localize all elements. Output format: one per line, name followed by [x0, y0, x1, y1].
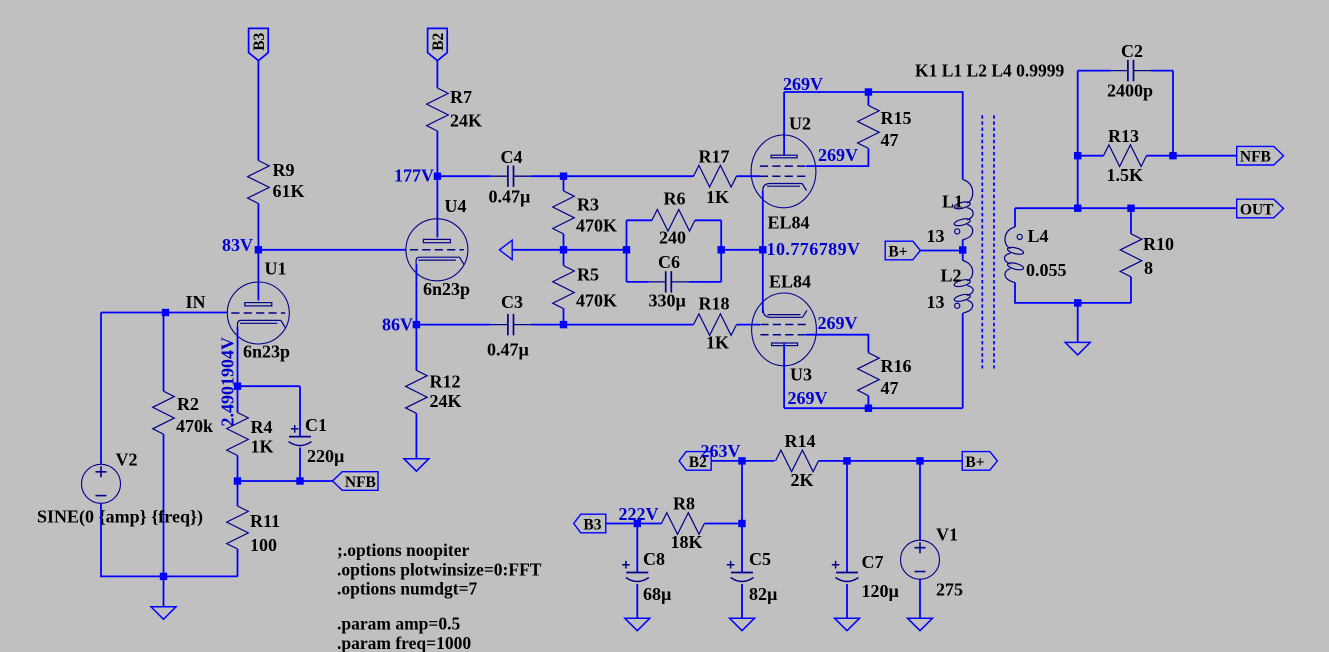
- flag OUT: [1237, 199, 1284, 218]
- triode U1 6n23p: [227, 259, 290, 362]
- wire ground stub left: [163, 576, 165, 606]
- svg-text:R3: R3: [577, 195, 599, 215]
- wire secondary left: [1014, 208, 1016, 227]
- svg-text:R11: R11: [250, 511, 280, 531]
- svg-text:470K: 470K: [576, 216, 617, 236]
- ground (R12): [404, 459, 429, 472]
- svg-text:68µ: 68µ: [643, 584, 672, 604]
- junction top rail / R15: [865, 88, 872, 95]
- wire C7 to ground: [846, 584, 848, 618]
- svg-text:R2: R2: [177, 394, 199, 414]
- wire U4 plate lead: [436, 176, 438, 237]
- junction 86V node: [413, 321, 420, 328]
- wire R17 to U2 grid: [737, 175, 761, 177]
- svg-text:NFB: NFB: [345, 474, 376, 491]
- svg-text:IN: IN: [186, 292, 206, 312]
- wire U1 plate lead: [257, 250, 259, 301]
- wire C7 node to V1 node: [847, 460, 920, 462]
- resistor R3: [553, 191, 617, 236]
- flag NFB (output): [1237, 146, 1284, 165]
- wire V1 top lead: [919, 461, 921, 540]
- wire B2 to R7: [436, 61, 438, 88]
- resistor R8: [661, 494, 704, 553]
- wire top row to R17: [564, 175, 694, 177]
- capacitor C8 (polarized): [622, 549, 672, 604]
- wire R3 to mid node: [563, 234, 565, 250]
- wire R3 top stub: [563, 176, 565, 191]
- capacitor C2: [1107, 41, 1153, 101]
- capacitor C1 (polarized): [289, 415, 346, 466]
- wire R16 to U3 screen: [806, 335, 868, 353]
- svg-text:R10: R10: [1143, 234, 1174, 254]
- svg-text:C1: C1: [305, 415, 327, 435]
- svg-text:269V: 269V: [788, 388, 828, 408]
- svg-text:C8: C8: [643, 549, 665, 569]
- wire to R4: [237, 386, 239, 412]
- phase dot L4: [1017, 234, 1022, 239]
- svg-text:V1: V1: [936, 525, 958, 545]
- junction R13 left: [1074, 152, 1081, 159]
- wire C6 bottom left: [627, 281, 649, 283]
- junction C4/R3/R17: [560, 173, 567, 180]
- svg-text:0.47µ: 0.47µ: [487, 340, 530, 360]
- wire L2 to bottom rail: [962, 313, 964, 408]
- wire R10 top stub: [1130, 208, 1132, 234]
- svg-text:.param amp=0.5: .param amp=0.5: [337, 614, 460, 634]
- ground (C7): [835, 618, 860, 631]
- phase dot L1: [955, 229, 960, 234]
- capacitor C7 (polarized): [832, 552, 900, 601]
- phase dot L2: [955, 303, 960, 308]
- wire R13 left stub: [1078, 155, 1104, 157]
- junction R3/R5 mid node: [560, 246, 567, 253]
- voltage source V2: [37, 450, 203, 528]
- svg-text:82µ: 82µ: [749, 584, 778, 604]
- ground (V1): [908, 618, 933, 631]
- svg-text:R14: R14: [785, 431, 816, 451]
- svg-text:1K: 1K: [706, 333, 729, 353]
- junction OUT row R10: [1127, 205, 1134, 212]
- svg-text:1K: 1K: [706, 187, 729, 207]
- junction 83V node: [255, 246, 262, 253]
- wire 86V row to C3: [416, 324, 490, 326]
- wire R16 bottom stub: [867, 396, 869, 409]
- wire C5 column: [741, 461, 743, 573]
- svg-text:C5: C5: [749, 549, 771, 569]
- wire L1 to center tap: [962, 240, 964, 250]
- svg-text:6n23p: 6n23p: [243, 342, 290, 362]
- wire U4 cathode down to 86V: [415, 264, 417, 325]
- svg-text:C4: C4: [501, 147, 523, 167]
- svg-text:R7: R7: [450, 87, 472, 107]
- wire V2 top loop: [100, 313, 102, 465]
- svg-text:1.5K: 1.5K: [1107, 165, 1144, 185]
- capacitor C6: [649, 252, 689, 311]
- wire bottom row to R18: [564, 324, 694, 326]
- wire C1 top lead: [299, 386, 301, 436]
- svg-text:6n23p: 6n23p: [423, 279, 470, 299]
- junction R5/C3 row: [560, 321, 567, 328]
- ground (secondary): [1065, 342, 1090, 355]
- svg-text:R18: R18: [699, 294, 730, 314]
- svg-text:24K: 24K: [430, 391, 462, 411]
- wire C8 to ground: [636, 584, 638, 618]
- inductor L4: [1005, 227, 1025, 283]
- wire V2 bottom / ground rail: [101, 503, 238, 576]
- wire R4 to NFB row: [237, 456, 239, 482]
- wire B+ flag to tap: [920, 250, 962, 252]
- svg-text:U3: U3: [790, 365, 812, 385]
- wire R6 top left: [627, 219, 652, 221]
- capacitor C5 (polarized): [727, 549, 778, 604]
- svg-text:.param freq=1000: .param freq=1000: [337, 633, 471, 652]
- wire mid node to R6C6 block: [564, 249, 627, 251]
- wire C3 to R5 node: [531, 324, 564, 326]
- wire U3 plate to bottom rail: [784, 407, 963, 409]
- svg-text:L2: L2: [941, 266, 962, 286]
- resistor R14: [776, 431, 819, 490]
- junction U1 cathode / R4 / C1: [234, 383, 241, 390]
- svg-text:R9: R9: [273, 160, 295, 180]
- wire secondary top rail: [1015, 207, 1237, 209]
- junction IN node: [162, 309, 169, 316]
- wire secondary left bottom: [1015, 283, 1131, 303]
- wire B3 flag to 222V: [606, 523, 638, 525]
- resistor R16: [858, 353, 912, 398]
- wire U3 cathode to mid node: [762, 250, 764, 313]
- svg-text:269V: 269V: [783, 74, 823, 94]
- svg-text:1K: 1K: [251, 437, 274, 457]
- svg-text:NFB: NFB: [1240, 149, 1271, 166]
- capacitor C4: [489, 147, 532, 207]
- inductor L2: [954, 261, 974, 314]
- svg-text:2K: 2K: [791, 470, 814, 490]
- svg-text:R6: R6: [664, 189, 686, 209]
- flag B3 (top supply): [249, 28, 269, 60]
- wire B2 flag to 263V: [711, 460, 742, 462]
- svg-text:L1: L1: [942, 192, 963, 212]
- voltage source V1: [901, 525, 964, 600]
- wire R5 top stub: [563, 250, 565, 266]
- svg-text:330µ: 330µ: [649, 291, 687, 311]
- svg-text:B+: B+: [965, 454, 984, 471]
- svg-text:61K: 61K: [273, 181, 305, 201]
- wire R6C6 left rail: [626, 220, 628, 282]
- svg-text:U2: U2: [789, 114, 811, 134]
- svg-text:24K: 24K: [450, 111, 482, 131]
- svg-text:U1: U1: [265, 259, 287, 279]
- svg-text:0.055: 0.055: [1026, 260, 1067, 280]
- junction R4/R11/NFB row: [234, 477, 241, 484]
- svg-text:.options plotwinsize=0:FFT: .options plotwinsize=0:FFT: [337, 559, 542, 579]
- svg-text:EL84: EL84: [768, 213, 810, 233]
- wire C7 column: [846, 461, 848, 573]
- wire IN row to U1 grid: [101, 312, 227, 314]
- svg-text:R16: R16: [881, 356, 912, 376]
- svg-text:B3: B3: [251, 32, 268, 50]
- resistor R5: [553, 265, 617, 311]
- wire R2 to bottom rail: [163, 434, 165, 576]
- wire NFB row to flag: [1173, 155, 1237, 157]
- inductor L1: [954, 180, 974, 240]
- resistor R2: [153, 391, 213, 436]
- svg-text:100: 100: [250, 535, 277, 555]
- junction 177V node: [434, 173, 441, 180]
- svg-text:220µ: 220µ: [307, 446, 345, 466]
- wire secondary ground stub: [1077, 303, 1079, 343]
- svg-text:C6: C6: [658, 252, 680, 272]
- wire R6 top right: [695, 219, 721, 221]
- wire U2 cathode to mid node: [762, 191, 764, 250]
- wire 263V to R14: [742, 460, 775, 462]
- pentode U2 EL84: [751, 114, 816, 233]
- svg-text:OUT: OUT: [1240, 201, 1274, 218]
- flag B+ (PSU): [962, 452, 997, 471]
- wire R15 to U2 screen: [806, 148, 868, 166]
- svg-text:C3: C3: [501, 292, 523, 312]
- wire C1 bottom lead: [299, 448, 301, 482]
- junction bottom rail / R16: [865, 405, 872, 412]
- wire NFB loop vertical: [1077, 71, 1079, 209]
- svg-text:2400p: 2400p: [1107, 81, 1153, 101]
- svg-text:470K: 470K: [576, 291, 617, 311]
- wire R6C6 right rail: [720, 220, 722, 282]
- wire R12 to ground: [415, 413, 417, 458]
- resistor R12: [406, 370, 462, 413]
- resistor R15: [858, 105, 912, 150]
- junction ground rail: [160, 573, 167, 580]
- wire R15 top stub: [867, 92, 869, 105]
- capacitor C3: [487, 292, 531, 360]
- svg-text:2.4901904V: 2.4901904V: [218, 337, 238, 427]
- svg-text:C2: C2: [1121, 41, 1143, 61]
- svg-text:SINE(0 {amp} {freq}): SINE(0 {amp} {freq}): [37, 507, 203, 528]
- ground (C8): [625, 618, 650, 631]
- svg-text:R15: R15: [881, 108, 912, 128]
- wire R14 to C7 node: [819, 460, 848, 462]
- svg-text:L4: L4: [1028, 226, 1049, 246]
- junction cathode node: [759, 246, 766, 253]
- wire 222V to R8: [637, 523, 661, 525]
- ground (input stage): [151, 607, 176, 620]
- resistor R18: [694, 294, 737, 353]
- resistor R17: [694, 147, 737, 208]
- pentode U3 EL84 (flipped): [752, 272, 817, 385]
- flag B2 (PSU): [679, 452, 711, 471]
- wire U3 plate lead: [783, 344, 785, 409]
- svg-text:B2: B2: [430, 32, 447, 50]
- flag B2 (top supply): [428, 28, 448, 60]
- svg-text:275: 275: [936, 580, 963, 600]
- svg-text:R12: R12: [430, 372, 461, 392]
- resistor R13: [1104, 126, 1147, 185]
- svg-text:EL84: EL84: [769, 272, 811, 292]
- wire C6 bottom right: [689, 281, 722, 283]
- svg-text:R13: R13: [1108, 126, 1139, 146]
- wire U2 plate to top rail: [784, 92, 963, 180]
- wire C5 to ground: [741, 584, 743, 618]
- resistor R9: [248, 160, 305, 204]
- wire R7 to 177V node: [436, 131, 438, 176]
- wire R9 to 83V node: [257, 204, 259, 250]
- svg-text:U4: U4: [445, 196, 467, 216]
- svg-text:.options numdgt=7: .options numdgt=7: [337, 579, 478, 599]
- svg-text:47: 47: [881, 378, 899, 398]
- svg-text:240: 240: [659, 228, 686, 248]
- wire U1 cathode down: [237, 327, 239, 386]
- junction 263V: [738, 457, 745, 464]
- junction C7 node: [843, 457, 850, 464]
- svg-text:269V: 269V: [818, 313, 858, 333]
- wire C4 to R3 node: [531, 175, 564, 177]
- wire NFB row: [238, 480, 333, 482]
- junction block right / mid row: [718, 246, 725, 253]
- wire block to cathode node: [721, 249, 763, 251]
- wire R13 right stub: [1147, 155, 1174, 157]
- svg-text:8: 8: [1144, 258, 1153, 278]
- transformer core dashed lines: [982, 115, 994, 368]
- wire V1 to ground: [919, 579, 921, 618]
- resistor R7: [427, 87, 482, 131]
- wire V1 node to B+ flag: [920, 460, 962, 462]
- wire 83V node to U4 grid: [258, 249, 405, 251]
- junction OUT row left: [1074, 205, 1081, 212]
- wire tap to L2: [962, 250, 964, 261]
- wire B3 to R9: [257, 61, 259, 161]
- svg-text:R17: R17: [699, 147, 730, 167]
- junction block left / mid row: [623, 246, 630, 253]
- junction C1 bottom: [296, 477, 303, 484]
- junction 222V: [634, 520, 641, 527]
- wire C2 top left: [1078, 70, 1111, 72]
- svg-text:470k: 470k: [176, 416, 213, 436]
- wire R10 bottom stub: [1130, 277, 1132, 303]
- wire cathode node to C1: [238, 385, 301, 387]
- wire IN node down to R2: [163, 313, 165, 392]
- flag B+ (center tap): [885, 241, 920, 260]
- wire R5 to 86V row: [563, 309, 565, 325]
- wire C2 right vertical: [1172, 71, 1174, 156]
- wire 86V to R12: [415, 325, 417, 371]
- svg-text:86V: 86V: [382, 315, 413, 335]
- ground (C5): [730, 618, 755, 631]
- svg-text:C7: C7: [862, 552, 884, 572]
- svg-text:R4: R4: [251, 417, 273, 437]
- svg-text:47: 47: [881, 130, 899, 150]
- svg-text:83V: 83V: [222, 235, 253, 255]
- svg-text:13: 13: [927, 226, 945, 246]
- flag B3 (PSU): [574, 514, 606, 533]
- wire C2 top right: [1151, 70, 1173, 72]
- resistor R4: [227, 413, 274, 457]
- wire C8 column: [636, 524, 638, 573]
- svg-text:B3: B3: [583, 516, 601, 533]
- flag input arrow (dangling net): [499, 240, 512, 259]
- junction secondary ground: [1074, 299, 1081, 306]
- junction C5 node: [738, 520, 745, 527]
- svg-text:K1 L1 L2 L4 0.9999: K1 L1 L2 L4 0.9999: [915, 61, 1065, 81]
- junction R13 right / C2: [1169, 152, 1176, 159]
- svg-text:;.options noopiter: ;.options noopiter: [337, 540, 469, 560]
- svg-text:B+: B+: [888, 243, 907, 260]
- wire R8 to C5 node: [704, 523, 742, 525]
- svg-text:13: 13: [927, 292, 945, 312]
- wire R18 to U3 grid: [737, 324, 761, 326]
- flag NFB (cathode feedback): [333, 472, 379, 491]
- triode U4 6n23p: [406, 196, 470, 299]
- wire R11 bottom to rail: [237, 549, 239, 576]
- resistor R11: [227, 506, 280, 555]
- wire U2 plate lead: [783, 92, 785, 155]
- svg-text:R8: R8: [673, 494, 695, 514]
- svg-text:263V: 263V: [701, 441, 741, 461]
- resistor R10: [1120, 234, 1174, 278]
- svg-text:120µ: 120µ: [862, 581, 900, 601]
- wire 177V to C4: [437, 175, 490, 177]
- svg-text:V2: V2: [116, 450, 138, 470]
- svg-text:18K: 18K: [671, 532, 703, 552]
- svg-text:177V: 177V: [394, 166, 434, 186]
- svg-text:0.47µ: 0.47µ: [489, 187, 532, 207]
- resistor R6: [652, 189, 695, 248]
- wire arrow to mid node: [512, 249, 564, 251]
- wire R11 top: [237, 481, 239, 506]
- svg-text:R5: R5: [577, 265, 599, 285]
- junction center tap B+: [959, 246, 966, 253]
- junction V1 node: [916, 457, 923, 464]
- svg-text:269V: 269V: [818, 145, 858, 165]
- svg-text:10.776789V: 10.776789V: [767, 239, 861, 259]
